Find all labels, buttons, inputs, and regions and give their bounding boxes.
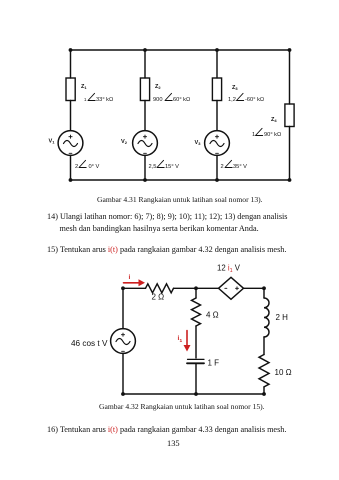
svg-text:-60° kΩ: -60° kΩ [245, 97, 264, 103]
resistor 10 Ohm [259, 355, 292, 387]
svg-text:2 H: 2 H [276, 313, 289, 322]
svg-text:2 Ω: 2 Ω [152, 293, 165, 302]
junction top branch4 [288, 48, 292, 52]
wire branch3 middle [216, 101, 218, 131]
wire branch4 upper [289, 50, 291, 104]
wire branch1 middle [70, 101, 72, 131]
svg-text:1: 1 [84, 97, 87, 102]
svg-text:2,5: 2,5 [149, 164, 157, 170]
wire branch1 upper [70, 50, 72, 78]
svg-text:Z3: Z3 [232, 85, 238, 91]
impedance Z4 [252, 104, 294, 138]
junction bottom branch3 [215, 178, 219, 182]
svg-text:46 cos t V: 46 cos t V [71, 339, 108, 348]
wire left branch upper [122, 288, 124, 328]
svg-text:10 Ω: 10 Ω [275, 368, 292, 377]
junction bottom-left circuit 4.32 [121, 392, 125, 396]
junction top branch2 [143, 48, 147, 52]
svg-text:900: 900 [153, 97, 163, 103]
junction top-middle circuit 4.32 [194, 286, 198, 290]
wire bottom bus circuit 4.31 [71, 179, 290, 181]
wire branch2 middle [144, 101, 146, 131]
dependent source 12 i1 V [217, 263, 244, 299]
svg-text:60° kΩ: 60° kΩ [173, 97, 190, 103]
junction bottom-right circuit 4.32 [262, 392, 266, 396]
impedance Z1 [66, 78, 113, 103]
wire left branch lower [122, 353, 124, 394]
svg-text:1,2: 1,2 [228, 97, 236, 103]
wire branch3 lower [216, 155, 218, 180]
wire top bus circuit 4.31 [71, 49, 290, 51]
svg-text:33° kΩ: 33° kΩ [96, 97, 113, 103]
svg-text:V2: V2 [121, 139, 128, 145]
wire branch3 upper [216, 50, 218, 78]
svg-text:V3: V3 [195, 140, 202, 146]
svg-text:2: 2 [221, 164, 224, 170]
junction top-left circuit 4.32 [121, 286, 125, 290]
svg-text:Z4: Z4 [271, 117, 277, 123]
svg-text:1: 1 [252, 132, 255, 138]
wire branch1 lower [70, 155, 72, 180]
wire branch2 lower [144, 155, 146, 180]
junction top-right circuit 4.32 [262, 286, 266, 290]
svg-text:0° V: 0° V [89, 164, 100, 170]
current arrow i1 [178, 331, 191, 352]
svg-text:Z2: Z2 [155, 84, 161, 90]
svg-text:1 F: 1 F [208, 358, 220, 367]
wire top-left segment circuit 4.32 [123, 287, 146, 289]
current arrow i [124, 274, 146, 286]
wire right branch lower [263, 387, 265, 394]
wire middle branch lower [195, 364, 197, 394]
junction top branch1 [69, 48, 73, 52]
svg-text:2: 2 [75, 164, 78, 170]
wire right branch upper [263, 288, 265, 298]
svg-text:1: 1 [180, 338, 183, 344]
junction bottom-middle circuit 4.32 [194, 392, 198, 396]
impedance Z2 [140, 78, 190, 103]
junction bottom branch1 [69, 178, 73, 182]
svg-text:V1: V1 [49, 139, 56, 145]
wire top-middle segment circuit 4.32 [174, 287, 219, 289]
impedance Z3 [212, 78, 264, 103]
junction bottom branch4 [288, 178, 292, 182]
resistor 2 Ohm [146, 284, 174, 302]
junction bottom branch2 [143, 178, 147, 182]
wire branch4 lower [289, 127, 291, 181]
svg-text:4 Ω: 4 Ω [206, 310, 219, 319]
svg-text:90° kΩ: 90° kΩ [264, 132, 281, 138]
wire branch2 upper [144, 50, 146, 78]
svg-text:i: i [129, 274, 131, 281]
source V2 [121, 131, 179, 170]
svg-text:15° V: 15° V [165, 164, 179, 170]
wire top-right segment circuit 4.32 [244, 287, 265, 289]
source V1 [49, 131, 100, 170]
wire right branch mid [263, 337, 265, 355]
source V3 [195, 131, 248, 170]
resistor 4 Ohm [192, 298, 219, 326]
capacitor 1 F [187, 358, 219, 367]
wire middle branch upper [195, 288, 197, 298]
svg-text:12 i1 V: 12 i1 V [217, 263, 241, 274]
svg-text:Z1: Z1 [81, 84, 87, 90]
inductor 2 H [264, 298, 288, 337]
wire bottom bus circuit 4.32 [123, 393, 264, 395]
svg-text:35° V: 35° V [233, 164, 247, 170]
wire middle branch mid [195, 326, 197, 358]
junction top branch3 [215, 48, 219, 52]
source 46 cos t V [71, 329, 135, 354]
